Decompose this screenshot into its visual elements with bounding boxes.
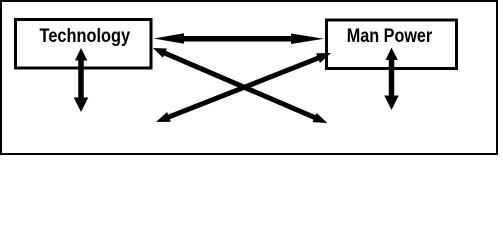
box Technology bbox=[16, 20, 152, 69]
double arrow horizontal Technology-ManPower bbox=[154, 33, 325, 44]
outer frame bbox=[1, 1, 497, 154]
svg-text:Technology: Technology bbox=[40, 26, 131, 47]
box Man Power bbox=[327, 20, 457, 69]
double arrow diagonal Technology to lower-right bbox=[153, 48, 327, 123]
double arrow vertical below Man Power bbox=[384, 48, 399, 111]
svg-text:Man Power: Man Power bbox=[347, 26, 433, 47]
double arrow vertical below Technology bbox=[74, 48, 89, 112]
double arrow diagonal lower-left to Man Power bbox=[156, 53, 331, 122]
